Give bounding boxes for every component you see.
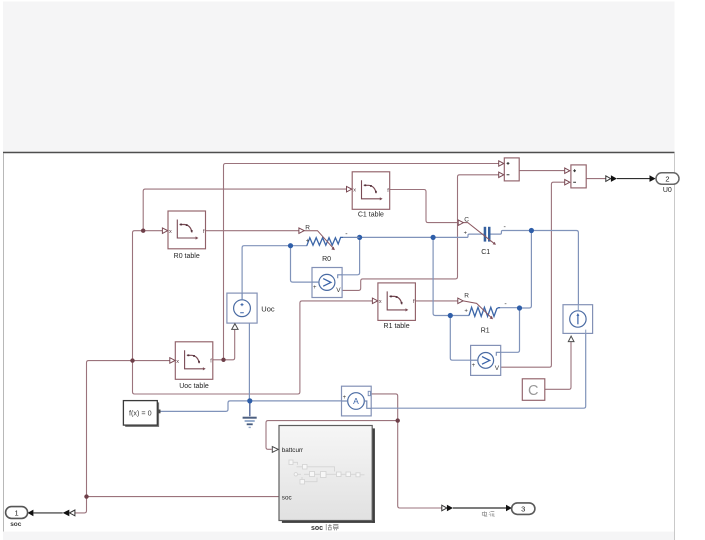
svg-text:R1 table: R1 table <box>384 323 410 330</box>
wire current source bottom to ammeter right <box>371 333 586 408</box>
svg-text:soc: soc <box>311 525 323 532</box>
lookup table C1 table <box>347 172 390 219</box>
wire soc branch up to R0 table input <box>133 231 144 361</box>
wire junction down to outport3 <box>398 421 442 508</box>
wire junction to Uoc source signal input <box>224 330 235 360</box>
wire R1 table output to R1 R input <box>416 300 458 302</box>
wire soc vertical up and to Uoc table input <box>75 361 170 513</box>
wire sum1 output to sum2 plus <box>519 170 565 172</box>
junction soc net at outport 1 <box>84 494 88 498</box>
sum block 2 <box>565 165 587 188</box>
subsystem soc estimation <box>272 426 375 533</box>
svg-text:Uoc: Uoc <box>261 304 275 313</box>
wire R0 right node down to V1 top port <box>342 237 359 274</box>
svg-text:A: A <box>353 396 359 406</box>
node R0 right terminal <box>357 235 362 240</box>
wire V2 output to sum2 minus <box>501 182 565 367</box>
outport 2 U0 <box>606 173 679 194</box>
lookup table R1 table <box>372 283 415 330</box>
wire ground bus to ammeter left <box>250 400 342 402</box>
lookup table R0 table <box>162 211 205 260</box>
wire C block to current source control <box>545 342 571 390</box>
svg-text:R: R <box>464 293 469 300</box>
svg-text:V: V <box>336 287 341 294</box>
wire soc branch down-right-up to R1 table input <box>133 301 373 394</box>
wire node A down to R1 left <box>433 237 469 315</box>
wire R0 table output to R0 R input <box>206 230 299 232</box>
outport 3 current <box>442 503 535 517</box>
wire R1 right lead to node B <box>500 307 519 309</box>
wire soc net: subsystem soc out to left junction <box>87 496 280 498</box>
svg-text:+: + <box>472 363 476 369</box>
svg-text:+: + <box>313 285 317 291</box>
svg-text:+: + <box>306 238 310 244</box>
wire C1 right node to current source top <box>531 231 578 305</box>
svg-text:C1: C1 <box>481 249 490 256</box>
svg-text:C: C <box>528 383 538 399</box>
svg-text:soc: soc <box>10 521 22 528</box>
wire branch up to C1 table input <box>143 189 346 231</box>
svg-text:C1 table: C1 table <box>358 212 384 219</box>
ground <box>243 418 257 428</box>
voltage sensor V1 <box>312 268 342 298</box>
svg-text:+: + <box>343 395 347 401</box>
svg-text:1: 1 <box>15 508 19 517</box>
svg-text:C: C <box>464 217 469 224</box>
node R1 right terminal <box>517 305 522 310</box>
current source <box>563 305 593 342</box>
wire R1 left node down to V2 + <box>450 316 470 361</box>
sum block 1 <box>499 158 520 181</box>
node ground bus <box>247 398 252 403</box>
svg-text:3: 3 <box>521 504 525 513</box>
solver config f(x)=0 <box>123 401 160 427</box>
voltage source Uoc <box>227 293 275 329</box>
variable resistor R1 <box>458 293 508 335</box>
wire R0 right node to C1 + with jog <box>360 234 484 237</box>
svg-text:V: V <box>495 365 500 372</box>
wire junction to battcurr input <box>266 421 398 450</box>
wire C1 right lead with jog <box>490 231 531 235</box>
junction soc net at Uoc table input <box>130 358 134 362</box>
svg-text:R: R <box>305 224 310 231</box>
svg-text:x: x <box>176 359 179 365</box>
node R1 left terminal <box>448 313 453 318</box>
wire sum2 output stub <box>586 178 606 180</box>
svg-text:R0 table: R0 table <box>174 253 200 260</box>
wire solver config to ground bus <box>157 401 249 412</box>
junction Uoc table output <box>221 358 225 362</box>
C block <box>522 379 545 401</box>
voltage sensor V2 <box>471 345 501 375</box>
node R0 left terminal <box>288 243 293 248</box>
lookup table Uoc table <box>170 342 213 390</box>
svg-text:x: x <box>169 229 172 235</box>
variable resistor R0 <box>299 224 360 263</box>
wire junction to R0 table input <box>143 230 162 232</box>
label soc估算 CJK glyphs <box>326 524 338 530</box>
label 电流 (current) <box>482 511 494 516</box>
wire Uoc table output to junction <box>213 359 224 361</box>
outport 1 soc <box>6 507 75 529</box>
node B (C1 minus) <box>529 228 534 233</box>
wire ammeter output to junction <box>371 394 398 421</box>
svg-text:2: 2 <box>665 174 669 183</box>
node A (C1 plus / R1 branch) <box>431 235 436 240</box>
wire ground stem <box>249 401 251 416</box>
wire Uoc- down to ground bus <box>248 323 250 401</box>
svg-text:R0: R0 <box>322 256 331 263</box>
wire R0 left node down to V1 + <box>291 246 313 282</box>
wire C1 table output to C1 C input <box>390 190 458 223</box>
wire Uoc signal up to sum1 plus <box>224 164 499 360</box>
wire V1 output to sum1 minus <box>342 175 499 291</box>
wire node B up to C1 right node <box>520 231 532 309</box>
svg-text:f(x) = 0: f(x) = 0 <box>129 409 152 418</box>
svg-text:Uoc table: Uoc table <box>179 383 209 390</box>
svg-text:+: + <box>464 308 468 314</box>
svg-text:U0: U0 <box>663 187 672 194</box>
svg-text:battcurr: battcurr <box>282 447 303 454</box>
junction soc net at R0 table input <box>141 229 145 233</box>
svg-text:soc: soc <box>282 494 292 501</box>
junction ammeter output net <box>396 418 400 422</box>
current sensor A <box>342 386 372 416</box>
variable capacitor C1 <box>458 217 506 256</box>
wire Uoc+ top to R0 left node <box>242 246 307 293</box>
wire node B down to V2 top port <box>501 308 520 352</box>
svg-text:x: x <box>353 188 356 194</box>
svg-text:x: x <box>379 299 382 305</box>
svg-text:R1: R1 <box>481 328 490 335</box>
